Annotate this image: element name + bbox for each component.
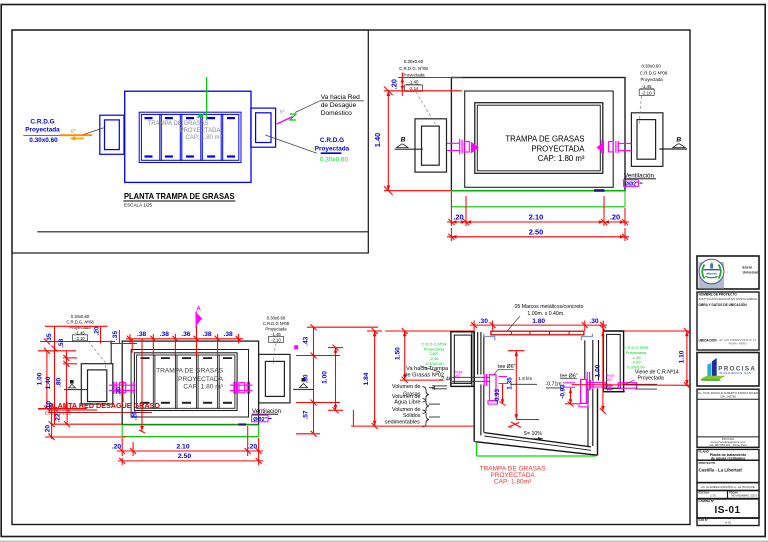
procisa green platform: [701, 376, 726, 380]
plano box: [697, 449, 759, 460]
svg-text:.20: .20: [93, 326, 100, 335]
top-left container divider line: [38, 231, 369, 233]
dim 1.00 right: [335, 348, 337, 411]
svg-text:uNemas: uNemas: [706, 272, 718, 276]
water level symbol left: [70, 380, 74, 384]
tank mid wall line: [131, 350, 248, 418]
inlet box outer: [81, 364, 113, 404]
svg-text:2.50: 2.50: [178, 453, 191, 460]
svg-text:C.R.D.G Nº08: C.R.D.G Nº08: [640, 71, 668, 76]
vent riser line (green): [206, 77, 208, 112]
svg-text:.26: .26: [132, 411, 139, 420]
logo banner: [704, 269, 720, 270]
tank interior inner line: [141, 114, 238, 160]
svg-text:.38: .38: [160, 331, 169, 338]
direccion row: [697, 483, 759, 491]
svg-text:.57: .57: [303, 410, 310, 419]
svg-text:PROYECTADA: PROYECTADA: [178, 376, 224, 383]
bottom row box: [697, 518, 759, 525]
svg-text:1.00m. x 0.40m.: 1.00m. x 0.40m.: [527, 311, 564, 317]
procisa building light blue: [707, 363, 711, 377]
svg-text:Proyectada: Proyectada: [641, 77, 664, 82]
svg-text:ESCALA: ESCALA: [699, 490, 710, 494]
svg-text:Proyectada: Proyectada: [638, 376, 664, 382]
svg-text:.43: .43: [303, 336, 310, 345]
svg-text:-1.45: -1.45: [642, 84, 653, 89]
right wall of tank: [592, 340, 594, 381]
left tee fitting magenta: [484, 374, 507, 404]
outlet box outer: [259, 354, 290, 403]
svg-text:1.10: 1.10: [679, 350, 686, 363]
page bottom shadow line: [0, 540, 768, 542]
signature box: [697, 389, 759, 447]
svg-text:0.30x0.60: 0.30x0.60: [267, 315, 286, 320]
svg-text:6°: 6°: [280, 110, 285, 116]
floor slab sloped: [484, 433, 591, 447]
svg-text:CAP: 1.80 m³: CAP: 1.80 m³: [183, 384, 223, 391]
dim .35 rotated (top left of tank): [118, 330, 120, 344]
red ground line left: [385, 330, 474, 332]
water level symbol right: [302, 378, 306, 382]
tank interior inner line: [137, 355, 235, 408]
red line under -2.46: [400, 379, 443, 381]
svg-text:.10: .10: [46, 401, 53, 410]
inlet box (plan) inner: [105, 120, 120, 150]
baffle 1: [152, 355, 154, 408]
svg-text:1.8 l/m: 1.8 l/m: [518, 376, 532, 381]
green floor line 2: [451, 206, 625, 208]
tank interior inner line: [477, 105, 600, 171]
svg-text:1.00: 1.00: [37, 372, 44, 385]
svg-text:UBICACIÓN: UBICACIÓN: [699, 337, 718, 342]
svg-text:ØØ2": ØØ2": [625, 181, 639, 187]
svg-text:-0.93: -0.93: [560, 384, 567, 399]
svg-text:1.80: 1.80: [532, 318, 545, 325]
baffle 2: [174, 355, 176, 408]
escala / fecha row: [697, 491, 759, 499]
svg-text:S= 10%: S= 10%: [524, 431, 543, 437]
inlet pipe fitting (magenta): [447, 139, 479, 155]
section structure black: [451, 331, 625, 455]
svg-text:.38: .38: [202, 331, 211, 338]
svg-text:ØØ2": ØØ2": [253, 417, 267, 423]
svg-text:-2.10: -2.10: [75, 336, 85, 341]
outlet box (plan) outer: [251, 108, 276, 147]
leader marcos: [507, 316, 520, 331]
svg-text:OBRA Y DATOS DE UBICACIÓN: OBRA Y DATOS DE UBICACIÓN: [699, 302, 748, 307]
tank outer wall: [451, 78, 625, 191]
svg-text:1.40: 1.40: [45, 376, 52, 389]
inlet box outer: [415, 119, 447, 172]
svg-text:.20: .20: [45, 425, 52, 434]
baffle wall 3: [200, 114, 202, 160]
svg-text:.30: .30: [479, 318, 488, 325]
tank outer wall (plan): [125, 91, 251, 182]
compartment dashes bottom: [141, 402, 150, 404]
svg-text:Proyectada: Proyectada: [315, 145, 350, 152]
leader from green note to pipe: [420, 366, 440, 372]
left dim lines group: [38, 327, 126, 441]
outlet pipe fitting (magenta): [597, 140, 632, 154]
svg-text:PROYECTO: PROYECTO: [699, 461, 716, 465]
blue corner bracket right: [581, 334, 592, 341]
svg-text:llega: llega: [455, 370, 464, 374]
dim row 1: .20 / 2.10 / .20: [450, 192, 452, 226]
green floor line 2: [122, 436, 258, 438]
magenta B mark: [294, 345, 298, 349]
top slab lines: [451, 331, 474, 333]
green floor line 1: [451, 190, 625, 192]
svg-text:Universal: Universal: [743, 270, 758, 274]
svg-text:Volumen de: Volumen de: [392, 384, 420, 390]
green floor edge: [476, 443, 478, 456]
svg-text:.20: .20: [390, 79, 399, 89]
dim .20 rotated (top left): [100, 326, 102, 343]
svg-text:CAP: 1.80m³: CAP: 1.80m³: [494, 478, 532, 485]
svg-text:.35: .35: [112, 331, 119, 340]
svg-text:-1.45: -1.45: [408, 79, 419, 84]
inlet channel wall line: [110, 341, 112, 364]
svg-text:.22: .22: [55, 413, 62, 422]
blue corner bracket left: [484, 334, 495, 341]
compartment top dashes: [145, 117, 236, 158]
logo laurel left (green): [702, 265, 704, 279]
svg-text:INGENIEROS SAC.: INGENIEROS SAC.: [719, 371, 753, 375]
svg-text:C.R.D.G. Nº08: C.R.D.G. Nº08: [66, 319, 94, 324]
dim row 2: 2.50: [450, 228, 452, 241]
center dim 1.35: [515, 351, 517, 420]
bottom dim row .20 2.10 .20: [117, 426, 263, 465]
svg-text:1.84: 1.84: [363, 372, 370, 385]
tank interior outer line: [139, 112, 241, 162]
logo laurel right (green): [719, 265, 721, 279]
leader to Va hacia Red: [295, 101, 320, 113]
dim .20 vertical (top left): [398, 77, 462, 79]
svg-text:de Desagüe: de Desagüe: [321, 102, 357, 109]
volumen braces: [423, 386, 448, 427]
svg-text:0.30x0.60: 0.30x0.60: [71, 314, 90, 319]
procisa building dark blue: [712, 358, 717, 377]
svg-text:Proyectada: Proyectada: [69, 325, 91, 330]
svg-text:.30: .30: [589, 318, 598, 325]
svg-text:Ø6": Ø6": [455, 374, 462, 378]
svg-text:0.30x0.60: 0.30x0.60: [29, 137, 58, 144]
svg-text:NOVIEMBRE 2023: NOVIEMBRE 2023: [731, 493, 757, 497]
blue underline right label: [321, 152, 342, 154]
vent size box: [623, 180, 638, 187]
red extension to section view bottom: [351, 425, 474, 427]
svg-text:PIURA - PERÚ: PIURA - PERÚ: [729, 342, 747, 346]
leader dashed to inlet box: [88, 341, 106, 370]
outlet box inner: [265, 361, 284, 396]
svg-text:TRAMPA DE GRASAS: TRAMPA DE GRASAS: [505, 135, 584, 144]
inlet flow arrow (orange): [75, 138, 85, 139]
black pipe line right: [624, 383, 657, 385]
svg-text:0.30x0.60: 0.30x0.60: [320, 156, 349, 163]
right tee fitting magenta: [563, 372, 605, 407]
inlet pipe fitting (magenta): [109, 382, 136, 394]
red ground line right: [603, 330, 689, 332]
svg-text:.20: .20: [610, 213, 620, 222]
dim 1.00 right chamber: [602, 323, 604, 411]
inlet box (plan) outer: [100, 115, 124, 154]
svg-text:.38: .38: [224, 331, 233, 338]
green floor line 1: [122, 424, 258, 426]
svg-text:1.50: 1.50: [395, 347, 402, 360]
logo box: [697, 256, 759, 289]
svg-text:05 Marcos metálicos/concreto: 05 Marcos metálicos/concreto: [515, 304, 584, 310]
svg-text:de Grasas Nº02: de Grasas Nº02: [404, 372, 444, 379]
svg-text:0.30x0.60: 0.30x0.60: [642, 64, 662, 69]
svg-text:PLANO: PLANO: [699, 450, 710, 454]
svg-text:Viene de C.R.Nº14: Viene de C.R.Nº14: [635, 369, 679, 375]
svg-text:CAP: 1.80 m³: CAP: 1.80 m³: [185, 135, 221, 141]
left entry chamber: [451, 332, 474, 387]
svg-text:1.00: 1.00: [594, 364, 601, 377]
outlet pipe (magenta): [277, 117, 293, 125]
bottom dim row 2.50: [118, 458, 263, 465]
leader from right note to outlet box: [639, 96, 642, 126]
svg-text:PROYECTADA: PROYECTADA: [531, 145, 585, 154]
svg-text:NOMBRE DE PROYECTO: NOMBRE DE PROYECTO: [699, 293, 738, 297]
baffle wall 4: [220, 114, 222, 160]
svg-text:2.10: 2.10: [176, 443, 189, 450]
svg-text:PROYECTADA: PROYECTADA: [180, 128, 221, 134]
svg-text:Volumen de: Volumen de: [392, 407, 420, 413]
svg-text:AV. LAS TORRES MZ-B LT. 14: AV. LAS TORRES MZ-B LT. 14: [719, 338, 756, 342]
baffle wall 2: [179, 114, 181, 160]
svg-text:PLANTA TRAMPA DE GRASAS: PLANTA TRAMPA DE GRASAS: [124, 192, 235, 201]
baffle wall 1: [159, 114, 161, 160]
inlet pipe mark (orange): [60, 134, 92, 136]
right outlet chamber: [603, 331, 623, 392]
svg-text:+1.: +1.: [507, 424, 513, 429]
svg-text:C.R.D.G. Nº08: C.R.D.G. Nº08: [399, 66, 428, 71]
top-left view container box: [12, 30, 368, 253]
top dim row .30 1.80 .30: [470, 321, 607, 332]
svg-text:0.30x0.60: 0.30x0.60: [404, 59, 424, 64]
svg-text:Doméstico: Doméstico: [321, 110, 352, 117]
svg-text:Va hacia Red: Va hacia Red: [321, 94, 360, 101]
tank interior outer line: [475, 103, 603, 174]
svg-text:Proyectada: Proyectada: [25, 126, 60, 133]
svg-text:-0.30x0.60: -0.30x0.60: [425, 361, 445, 366]
left inlet pipe black lines: [452, 376, 489, 378]
svg-text:Castilla - La Libertad: Castilla - La Libertad: [699, 468, 743, 473]
svg-text:INSTITUCIÓN EDUCATIVA SANTA SA: INSTITUCIÓN EDUCATIVA SANTA SABINA: [699, 296, 758, 301]
svg-text:CAD Nº: CAD Nº: [699, 518, 708, 522]
baffle 3: [196, 355, 198, 408]
svg-text:AV. ALAMEDA ESPAÑOLA - EL BOSQ: AV. ALAMEDA ESPAÑOLA - EL BOSQUE: [701, 484, 755, 489]
vent symbol (green): [290, 114, 296, 120]
svg-text:.58: .58: [58, 338, 65, 347]
tank mid wall line: [465, 91, 614, 187]
svg-text:TRAMPA DE GRASAS: TRAMPA DE GRASAS: [148, 121, 209, 127]
svg-text:B: B: [676, 137, 681, 144]
svg-text:Agua Libre: Agua Libre: [394, 400, 420, 406]
svg-text:ESCALA 1/25: ESCALA 1/25: [124, 203, 153, 208]
svg-text:.30: .30: [116, 387, 123, 396]
svg-text:-2.46: -2.46: [439, 377, 452, 383]
svg-text:1:75: 1:75: [710, 493, 716, 497]
svg-text:A: A: [196, 306, 201, 313]
marcos hatch band: [491, 331, 584, 335]
svg-text:.36: .36: [181, 331, 190, 338]
svg-text:.80: .80: [303, 374, 310, 383]
section line B right: [660, 148, 688, 150]
svg-text:IS-01: IS-01: [715, 505, 741, 516]
svg-text:.80: .80: [56, 377, 63, 386]
leader dashed to outlet box: [274, 343, 277, 364]
svg-text:LAMINA Nº: LAMINA Nº: [699, 499, 716, 503]
tank interior outer line: [134, 353, 237, 411]
project data box: [697, 292, 759, 350]
dim 1.10 far right: [686, 331, 688, 385]
logo tower icon: [710, 264, 713, 269]
top dim row .38 .38 .36 .38 .38: [126, 334, 243, 355]
baffle 4: [217, 355, 219, 408]
svg-text:.20: .20: [453, 213, 463, 222]
dim 1.84 (left of section view): [374, 331, 376, 426]
svg-text:.20: .20: [248, 443, 258, 450]
logo circle: [699, 259, 724, 284]
svg-text:-2.10: -2.10: [642, 90, 653, 95]
svg-text:TRAMPA DE GRASAS: TRAMPA DE GRASAS: [156, 368, 224, 375]
svg-text:1.00: 1.00: [322, 371, 329, 384]
tank outer wall: [122, 341, 258, 424]
svg-text:1.40: 1.40: [373, 133, 382, 147]
svg-text:C.R.D.G Nº08: C.R.D.G Nº08: [263, 321, 290, 326]
logo background square: [699, 262, 725, 289]
svg-text:1.35: 1.35: [507, 377, 514, 390]
svg-text:Proyectada: Proyectada: [265, 326, 287, 331]
dim 1.50 left: [404, 331, 406, 380]
svg-text:.20: .20: [112, 443, 122, 450]
red extension line bottom left: [384, 190, 451, 192]
svg-text:.35: .35: [46, 333, 53, 342]
svg-text:-0.93: -0.93: [494, 388, 501, 403]
leader line left: [23, 135, 80, 137]
navy vent dash on green line: [238, 423, 246, 425]
compartment bottom dashes: [145, 155, 153, 157]
compartment dashes top: [141, 357, 233, 404]
inlet box inner: [88, 370, 107, 402]
navy vent dash on floor line: [594, 189, 605, 192]
section line B left: [395, 148, 423, 150]
svg-text:-2.10: -2.10: [271, 337, 281, 342]
centerline red from flag: [196, 327, 198, 356]
outlet box (plan) inner: [256, 113, 271, 143]
svg-text:.38: .38: [137, 331, 146, 338]
svg-text:B: B: [401, 137, 406, 144]
proyecto box: [697, 460, 759, 482]
lamina box: [697, 499, 759, 518]
outlet box outer: [631, 113, 663, 167]
leader to C.R.D.G right: [265, 135, 317, 153]
svg-text:Va hacia Trampa: Va hacia Trampa: [406, 366, 449, 372]
inlet box inner: [422, 126, 440, 165]
svg-text:Ø6": Ø6": [607, 378, 614, 382]
outlet box inner: [637, 120, 656, 160]
pipe through right wall magenta: [606, 383, 637, 392]
svg-text:6°: 6°: [71, 129, 76, 135]
svg-text:Cel: 987 654 321 - Piura, Perú: Cel: 987 654 321 - Piura, Perú: [709, 443, 747, 447]
svg-text:CAP: 1.80 m³: CAP: 1.80 m³: [538, 154, 585, 163]
left wall of tank: [471, 332, 473, 386]
dim 1.40 vertical (left of view 2): [387, 91, 389, 191]
outlet pipe fitting (magenta): [230, 382, 253, 394]
svg-text:C.R.D.G: C.R.D.G: [320, 137, 344, 144]
svg-text:A-01: A-01: [725, 521, 731, 525]
svg-text:2.10: 2.10: [529, 213, 543, 222]
right dim stack .43 .80 .57: [296, 324, 378, 437]
svg-text:Proyectada: Proyectada: [402, 72, 425, 77]
svg-text:CIP: 145780: CIP: 145780: [720, 394, 736, 398]
svg-text:Enero: Enero: [743, 265, 753, 269]
svg-text:2.50: 2.50: [529, 227, 543, 236]
leader viene: [623, 380, 635, 386]
svg-text:Sólidos: Sólidos: [403, 413, 421, 419]
leader from note to inlet box: [416, 92, 436, 124]
chamber bottoms: [451, 382, 471, 384]
svg-text:sedimentables: sedimentables: [385, 419, 420, 425]
svg-text:C.R.D.G: C.R.D.G: [30, 119, 54, 126]
svg-text:llega: llega: [607, 374, 616, 378]
procisa logo box: [697, 353, 759, 387]
